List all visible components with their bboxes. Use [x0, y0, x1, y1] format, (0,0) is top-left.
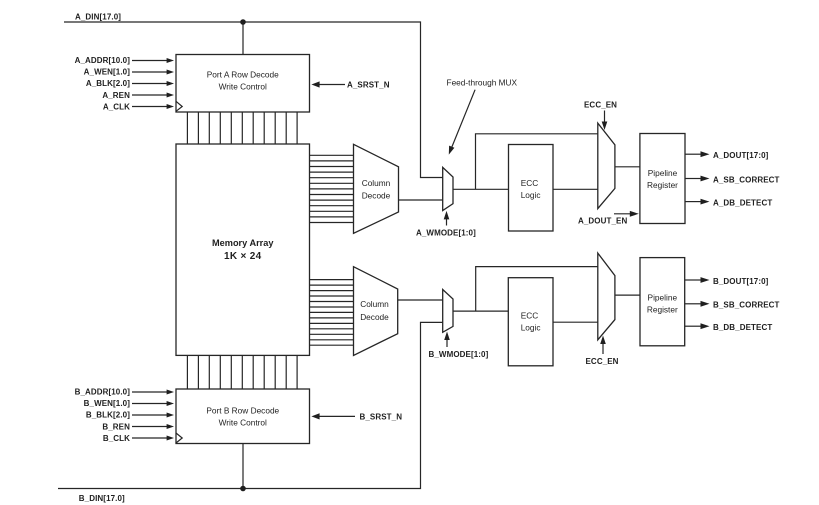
output A_SB_CORRECT	[685, 175, 780, 184]
input B_CLK	[103, 434, 174, 443]
bus Memory to Column Decode A (13 lines)	[310, 155, 354, 222]
svg-text:ECC_EN: ECC_EN	[584, 100, 617, 109]
input A_BLK[2.0]	[86, 79, 174, 88]
svg-text:Decode: Decode	[360, 312, 389, 322]
Port B Row Decode box	[176, 389, 310, 444]
svg-text:B_WEN[1.0]: B_WEN[1.0]	[84, 399, 131, 408]
svg-text:Decode: Decode	[362, 191, 391, 201]
mux ECC_EN B	[598, 253, 615, 340]
select arrow A_WMODE[1:0]	[416, 211, 476, 238]
input B_SRST_N	[311, 413, 402, 422]
svg-text:Write Control: Write Control	[219, 82, 267, 92]
select arrow B_WMODE[1:0]	[429, 332, 489, 360]
wire A_DIN net	[64, 19, 443, 177]
input B_BLK[2.0]	[86, 410, 174, 419]
svg-text:ECC: ECC	[521, 178, 539, 188]
wire ECC B out	[553, 321, 598, 323]
svg-text:A_DB_DETECT: A_DB_DETECT	[713, 198, 772, 207]
svg-text:1K × 24: 1K × 24	[224, 251, 262, 262]
input A_WEN[1.0]	[84, 67, 174, 76]
svg-text:A_BLK[2.0]: A_BLK[2.0]	[86, 79, 130, 88]
svg-text:B_REN: B_REN	[102, 423, 130, 432]
input B_WEN[1.0]	[84, 399, 174, 408]
svg-text:ECC_EN: ECC_EN	[586, 357, 619, 366]
svg-text:ECC: ECC	[521, 310, 539, 320]
svg-text:B_DOUT[17:0]: B_DOUT[17:0]	[713, 277, 769, 286]
label A_DIN[17.0]	[75, 12, 121, 21]
output A_DB_DETECT	[685, 198, 772, 207]
input B_REN	[102, 423, 174, 432]
svg-text:B_ADDR[10.0]: B_ADDR[10.0]	[75, 387, 131, 396]
output B_SB_CORRECT	[685, 301, 780, 310]
output B_DOUT[17:0]	[685, 277, 769, 286]
wire Column Decode A to mux	[399, 199, 443, 201]
svg-text:B_DB_DETECT: B_DB_DETECT	[713, 323, 772, 332]
svg-text:A_WMODE[1:0]: A_WMODE[1:0]	[416, 229, 476, 238]
svg-text:B_BLK[2.0]: B_BLK[2.0]	[86, 410, 130, 419]
svg-text:B_DIN[17.0]: B_DIN[17.0]	[79, 494, 125, 503]
feed-through MUX A	[443, 167, 453, 210]
wire mux B to pipeline	[615, 294, 640, 296]
ECC Logic B box	[508, 278, 553, 366]
svg-text:Logic: Logic	[521, 190, 541, 200]
svg-text:A_DOUT_EN: A_DOUT_EN	[578, 216, 627, 225]
input A_ADDR[10.0]	[75, 56, 174, 65]
Column Decode B	[354, 267, 398, 356]
annotation Feed-through MUX	[447, 78, 518, 155]
svg-text:A_DOUT[17:0]: A_DOUT[17:0]	[713, 151, 769, 160]
svg-text:Feed-through MUX: Feed-through MUX	[447, 78, 518, 88]
input B_ADDR[10.0]	[75, 387, 174, 396]
svg-text:A_REN: A_REN	[102, 91, 130, 100]
svg-text:A_WEN[1.0]: A_WEN[1.0]	[84, 67, 131, 76]
select ECC_EN B	[586, 336, 619, 367]
svg-text:B_SRST_N: B_SRST_N	[360, 413, 403, 422]
input A_DOUT_EN	[578, 211, 639, 225]
wire Column Decode B to mux	[398, 299, 443, 301]
svg-text:Column: Column	[360, 299, 389, 309]
svg-text:Register: Register	[647, 304, 678, 314]
svg-text:Pipeline: Pipeline	[648, 168, 678, 178]
svg-text:Pipeline: Pipeline	[648, 292, 678, 302]
Pipeline Register B box	[640, 258, 685, 346]
Pipeline Register A box	[640, 134, 685, 224]
ECC Logic A box	[509, 145, 554, 232]
bus Port A to Memory (11 lines)	[187, 112, 297, 144]
input A_REN	[102, 91, 174, 100]
wire mux B out / bypass	[453, 267, 598, 312]
output B_DB_DETECT	[685, 323, 772, 332]
bus Memory to Column Decode B (13 lines)	[310, 280, 354, 346]
input A_CLK	[103, 103, 174, 112]
svg-text:B_WMODE[1:0]: B_WMODE[1:0]	[429, 350, 489, 359]
select ECC_EN A	[584, 100, 617, 130]
svg-text:A_ADDR[10.0]: A_ADDR[10.0]	[75, 56, 131, 65]
feed-through MUX B	[443, 290, 453, 333]
wire B_DIN net	[58, 322, 443, 491]
svg-text:Column: Column	[362, 178, 391, 188]
output A_DOUT[17:0]	[685, 151, 769, 160]
svg-text:Memory Array: Memory Array	[212, 238, 274, 248]
svg-text:A_DIN[17.0]: A_DIN[17.0]	[75, 12, 121, 21]
svg-text:B_SB_CORRECT: B_SB_CORRECT	[713, 301, 780, 310]
Column Decode A	[354, 144, 399, 233]
svg-text:A_SRST_N: A_SRST_N	[347, 81, 390, 90]
svg-text:A_SB_CORRECT: A_SB_CORRECT	[713, 175, 780, 184]
svg-text:Register: Register	[647, 180, 678, 190]
label B_DIN[17.0]	[79, 494, 125, 503]
wire mux A to pipeline	[615, 166, 640, 168]
wire mux A out / bypass	[453, 134, 598, 190]
svg-text:Logic: Logic	[521, 322, 541, 332]
input A_SRST_N	[311, 81, 389, 90]
svg-text:B_CLK: B_CLK	[103, 434, 130, 443]
bus Memory to Port B (11 lines)	[187, 355, 297, 389]
Memory Array box	[176, 144, 310, 355]
svg-text:Write Control: Write Control	[219, 418, 267, 428]
svg-text:Port B Row Decode: Port B Row Decode	[206, 406, 279, 416]
mux ECC_EN A	[598, 123, 615, 209]
svg-text:A_CLK: A_CLK	[103, 103, 130, 112]
Port A Row Decode box	[176, 55, 310, 113]
wire ECC A out	[553, 188, 598, 190]
svg-text:Port A Row Decode: Port A Row Decode	[207, 70, 279, 80]
